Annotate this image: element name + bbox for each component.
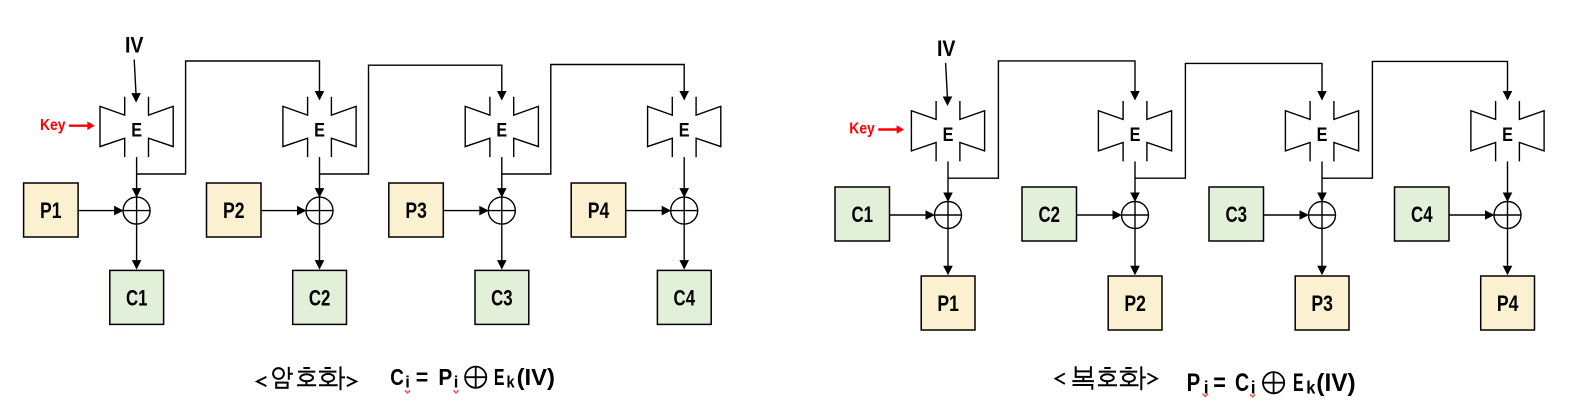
box C1 (decrypt) (835, 187, 890, 241)
box P2 (decrypt) (1108, 276, 1162, 330)
feedback wire E3 output to E4 input (encrypt) (502, 65, 684, 175)
caption <암호화> (drawn Hangul paths) (257, 366, 356, 390)
svg-text:C1: C1 (851, 202, 873, 227)
wire E3 output to XOR (encrypt) (497, 157, 507, 198)
box P1 (encrypt) (24, 183, 79, 237)
arrow P4 into XOR (encrypt) (626, 206, 672, 216)
wire XOR to P4 (decrypt) (1503, 229, 1513, 276)
box P3 (decrypt) (1295, 276, 1349, 330)
wire XOR to P3 (decrypt) (1317, 229, 1327, 276)
cipher block E1 (encrypt) (100, 97, 173, 157)
wire E1 output to XOR (encrypt) (132, 157, 142, 198)
box C4 (decrypt) (1395, 187, 1450, 241)
svg-text:E: E (679, 120, 690, 142)
svg-text:IV: IV (937, 36, 956, 61)
wire XOR to C4 (encrypt) (679, 224, 689, 270)
arrow IV into E1 (encrypt) (131, 60, 141, 103)
arrowhead into E2 input (decrypt) (1130, 91, 1140, 101)
cipher block E1 (decrypt) (911, 101, 984, 161)
arrow C2 into XOR (decrypt) (1077, 210, 1123, 220)
wire E3 output to XOR (decrypt) (1317, 161, 1327, 202)
svg-text:C4: C4 (1411, 202, 1433, 227)
svg-text:C: C (390, 364, 404, 390)
wire E4 output to XOR (decrypt) (1503, 161, 1513, 202)
red spellcheck mark under subscript i of Ci (encrypt) (405, 390, 410, 393)
svg-text:P2: P2 (223, 198, 245, 223)
svg-text:E: E (1502, 124, 1513, 146)
svg-text:E: E (1130, 124, 1141, 146)
box P4 (encrypt) (571, 183, 626, 237)
wire XOR to C3 (encrypt) (497, 224, 507, 270)
box C4 (encrypt) (657, 270, 711, 324)
xor symbol in formula (encrypt) (465, 367, 486, 388)
wire XOR to P1 (decrypt) (943, 229, 953, 276)
arrowhead into E3 input (encrypt) (497, 91, 507, 101)
svg-text:P1: P1 (40, 198, 62, 223)
svg-text:=: = (416, 364, 429, 390)
svg-text:E: E (131, 120, 142, 142)
box C3 (encrypt) (475, 270, 529, 324)
svg-text:E: E (496, 120, 507, 142)
svg-text:Key: Key (40, 117, 66, 134)
red spellcheck mark under subscript i of Pi (encrypt) (453, 390, 458, 393)
arrowhead into E3 input (decrypt) (1317, 91, 1327, 101)
arrow P3 into XOR (encrypt) (443, 206, 489, 216)
svg-text:C3: C3 (491, 286, 513, 311)
cipher block E4 (encrypt) (648, 97, 721, 157)
arrowhead into E2 input (encrypt) (315, 91, 325, 101)
red arrow Key into E1 (decrypt) (878, 125, 904, 134)
xor X1 (encrypt) (123, 197, 150, 224)
box P1 (decrypt) (921, 276, 975, 330)
svg-text:C4: C4 (674, 286, 696, 311)
svg-text:C3: C3 (1225, 202, 1247, 227)
wire E2 output to XOR (encrypt) (315, 157, 325, 198)
cipher block E3 (encrypt) (465, 97, 538, 157)
arrowhead into E4 input (encrypt) (679, 91, 689, 101)
arrow P1 into XOR (encrypt) (78, 206, 124, 216)
arrowhead into E4 input (decrypt) (1503, 91, 1513, 101)
svg-text:Key: Key (849, 121, 875, 138)
wire E1 output to XOR (decrypt) (943, 161, 953, 202)
cipher block E4 (decrypt) (1471, 101, 1544, 161)
svg-text:i: i (405, 373, 410, 391)
svg-text:=: = (1213, 369, 1226, 397)
xor X4 (encrypt) (671, 197, 698, 224)
feedback wire E2 output to E3 input (decrypt) (1135, 63, 1322, 178)
box C3 (decrypt) (1209, 187, 1264, 241)
feedback wire E3 output to E4 input (decrypt) (1322, 61, 1508, 178)
feedback wire E1 output to E2 input (encrypt) (137, 61, 320, 174)
xor X3 (encrypt) (488, 197, 515, 224)
svg-text:E: E (943, 124, 954, 146)
svg-text:E: E (494, 364, 505, 390)
svg-text:C: C (1235, 369, 1249, 397)
svg-text:P3: P3 (1311, 291, 1333, 316)
svg-text:C2: C2 (1038, 202, 1060, 227)
svg-text:C2: C2 (309, 286, 331, 311)
cipher block E3 (decrypt) (1285, 101, 1358, 161)
box C1 (encrypt) (110, 270, 164, 324)
xor X3 (decrypt) (1309, 202, 1336, 229)
caption <복호화> (drawn Hangul paths) (1056, 366, 1157, 390)
box P2 (encrypt) (207, 183, 262, 237)
feedback wire E2 output to E3 input (encrypt) (320, 65, 502, 174)
svg-text:E: E (1293, 369, 1304, 397)
box C2 (encrypt) (293, 270, 347, 324)
svg-text:P: P (1187, 369, 1201, 397)
svg-text:E: E (314, 120, 325, 142)
svg-text:P: P (438, 364, 452, 390)
svg-text:E: E (1317, 124, 1328, 146)
svg-text:P4: P4 (1497, 291, 1519, 316)
box P3 (encrypt) (389, 183, 444, 237)
box P4 (decrypt) (1481, 276, 1535, 330)
svg-text:i: i (454, 373, 459, 391)
arrow P2 into XOR (encrypt) (261, 206, 307, 216)
xor X2 (encrypt) (306, 197, 333, 224)
arrow C1 into XOR (decrypt) (890, 210, 936, 220)
svg-text:(IV): (IV) (1316, 369, 1355, 397)
wire XOR to P2 (decrypt) (1130, 229, 1140, 276)
arrow C3 into XOR (decrypt) (1264, 210, 1310, 220)
xor X4 (decrypt) (1494, 202, 1521, 229)
box C2 (decrypt) (1022, 187, 1077, 241)
svg-text:P3: P3 (405, 198, 427, 223)
svg-text:k: k (507, 372, 516, 391)
svg-text:P2: P2 (1124, 291, 1146, 316)
red spellcheck mark under subscript i of Ci (decrypt) (1250, 394, 1255, 397)
svg-text:C1: C1 (126, 286, 148, 311)
svg-text:(IV): (IV) (517, 364, 555, 390)
cipher block E2 (encrypt) (283, 97, 356, 157)
svg-text:P1: P1 (937, 291, 959, 316)
xor X2 (decrypt) (1122, 202, 1149, 229)
red arrow Key into E1 (encrypt) (69, 121, 95, 130)
svg-text:k: k (1306, 377, 1315, 397)
red spellcheck mark under subscript i of Pi (decrypt) (1203, 394, 1208, 397)
feedback wire E1 output to E2 input (decrypt) (948, 61, 1135, 178)
wire XOR to C1 (encrypt) (132, 224, 142, 270)
arrow C4 into XOR (decrypt) (1449, 210, 1495, 220)
svg-text:P4: P4 (588, 198, 610, 223)
wire E2 output to XOR (decrypt) (1130, 161, 1140, 202)
wire XOR to C2 (encrypt) (315, 224, 325, 270)
arrow IV into E1 (decrypt) (943, 63, 953, 106)
xor symbol in formula (decrypt) (1263, 372, 1284, 393)
wire E4 output to XOR (encrypt) (679, 157, 689, 198)
xor X1 (decrypt) (935, 202, 962, 229)
cipher block E2 (decrypt) (1098, 101, 1171, 161)
svg-text:IV: IV (125, 33, 144, 58)
